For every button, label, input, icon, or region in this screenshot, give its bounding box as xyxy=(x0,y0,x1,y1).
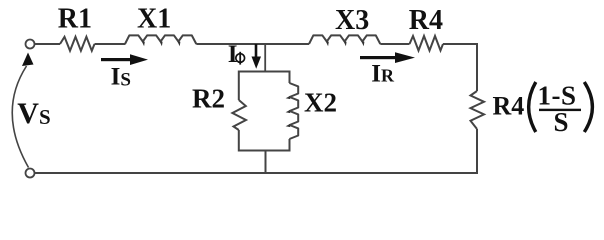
svg-text:I: I xyxy=(228,41,238,68)
svg-text:S: S xyxy=(561,81,576,111)
svg-text:R4: R4 xyxy=(493,92,525,121)
svg-text:X1: X1 xyxy=(137,4,171,35)
svg-text:1: 1 xyxy=(538,81,552,111)
svg-text:X3: X3 xyxy=(335,5,369,36)
svg-text:S: S xyxy=(554,107,569,137)
svg-text:-: - xyxy=(552,81,561,111)
svg-text:R1: R1 xyxy=(58,4,92,35)
svg-text:R2: R2 xyxy=(192,84,225,114)
svg-text:X2: X2 xyxy=(304,88,337,118)
svg-text:R4: R4 xyxy=(409,5,443,36)
